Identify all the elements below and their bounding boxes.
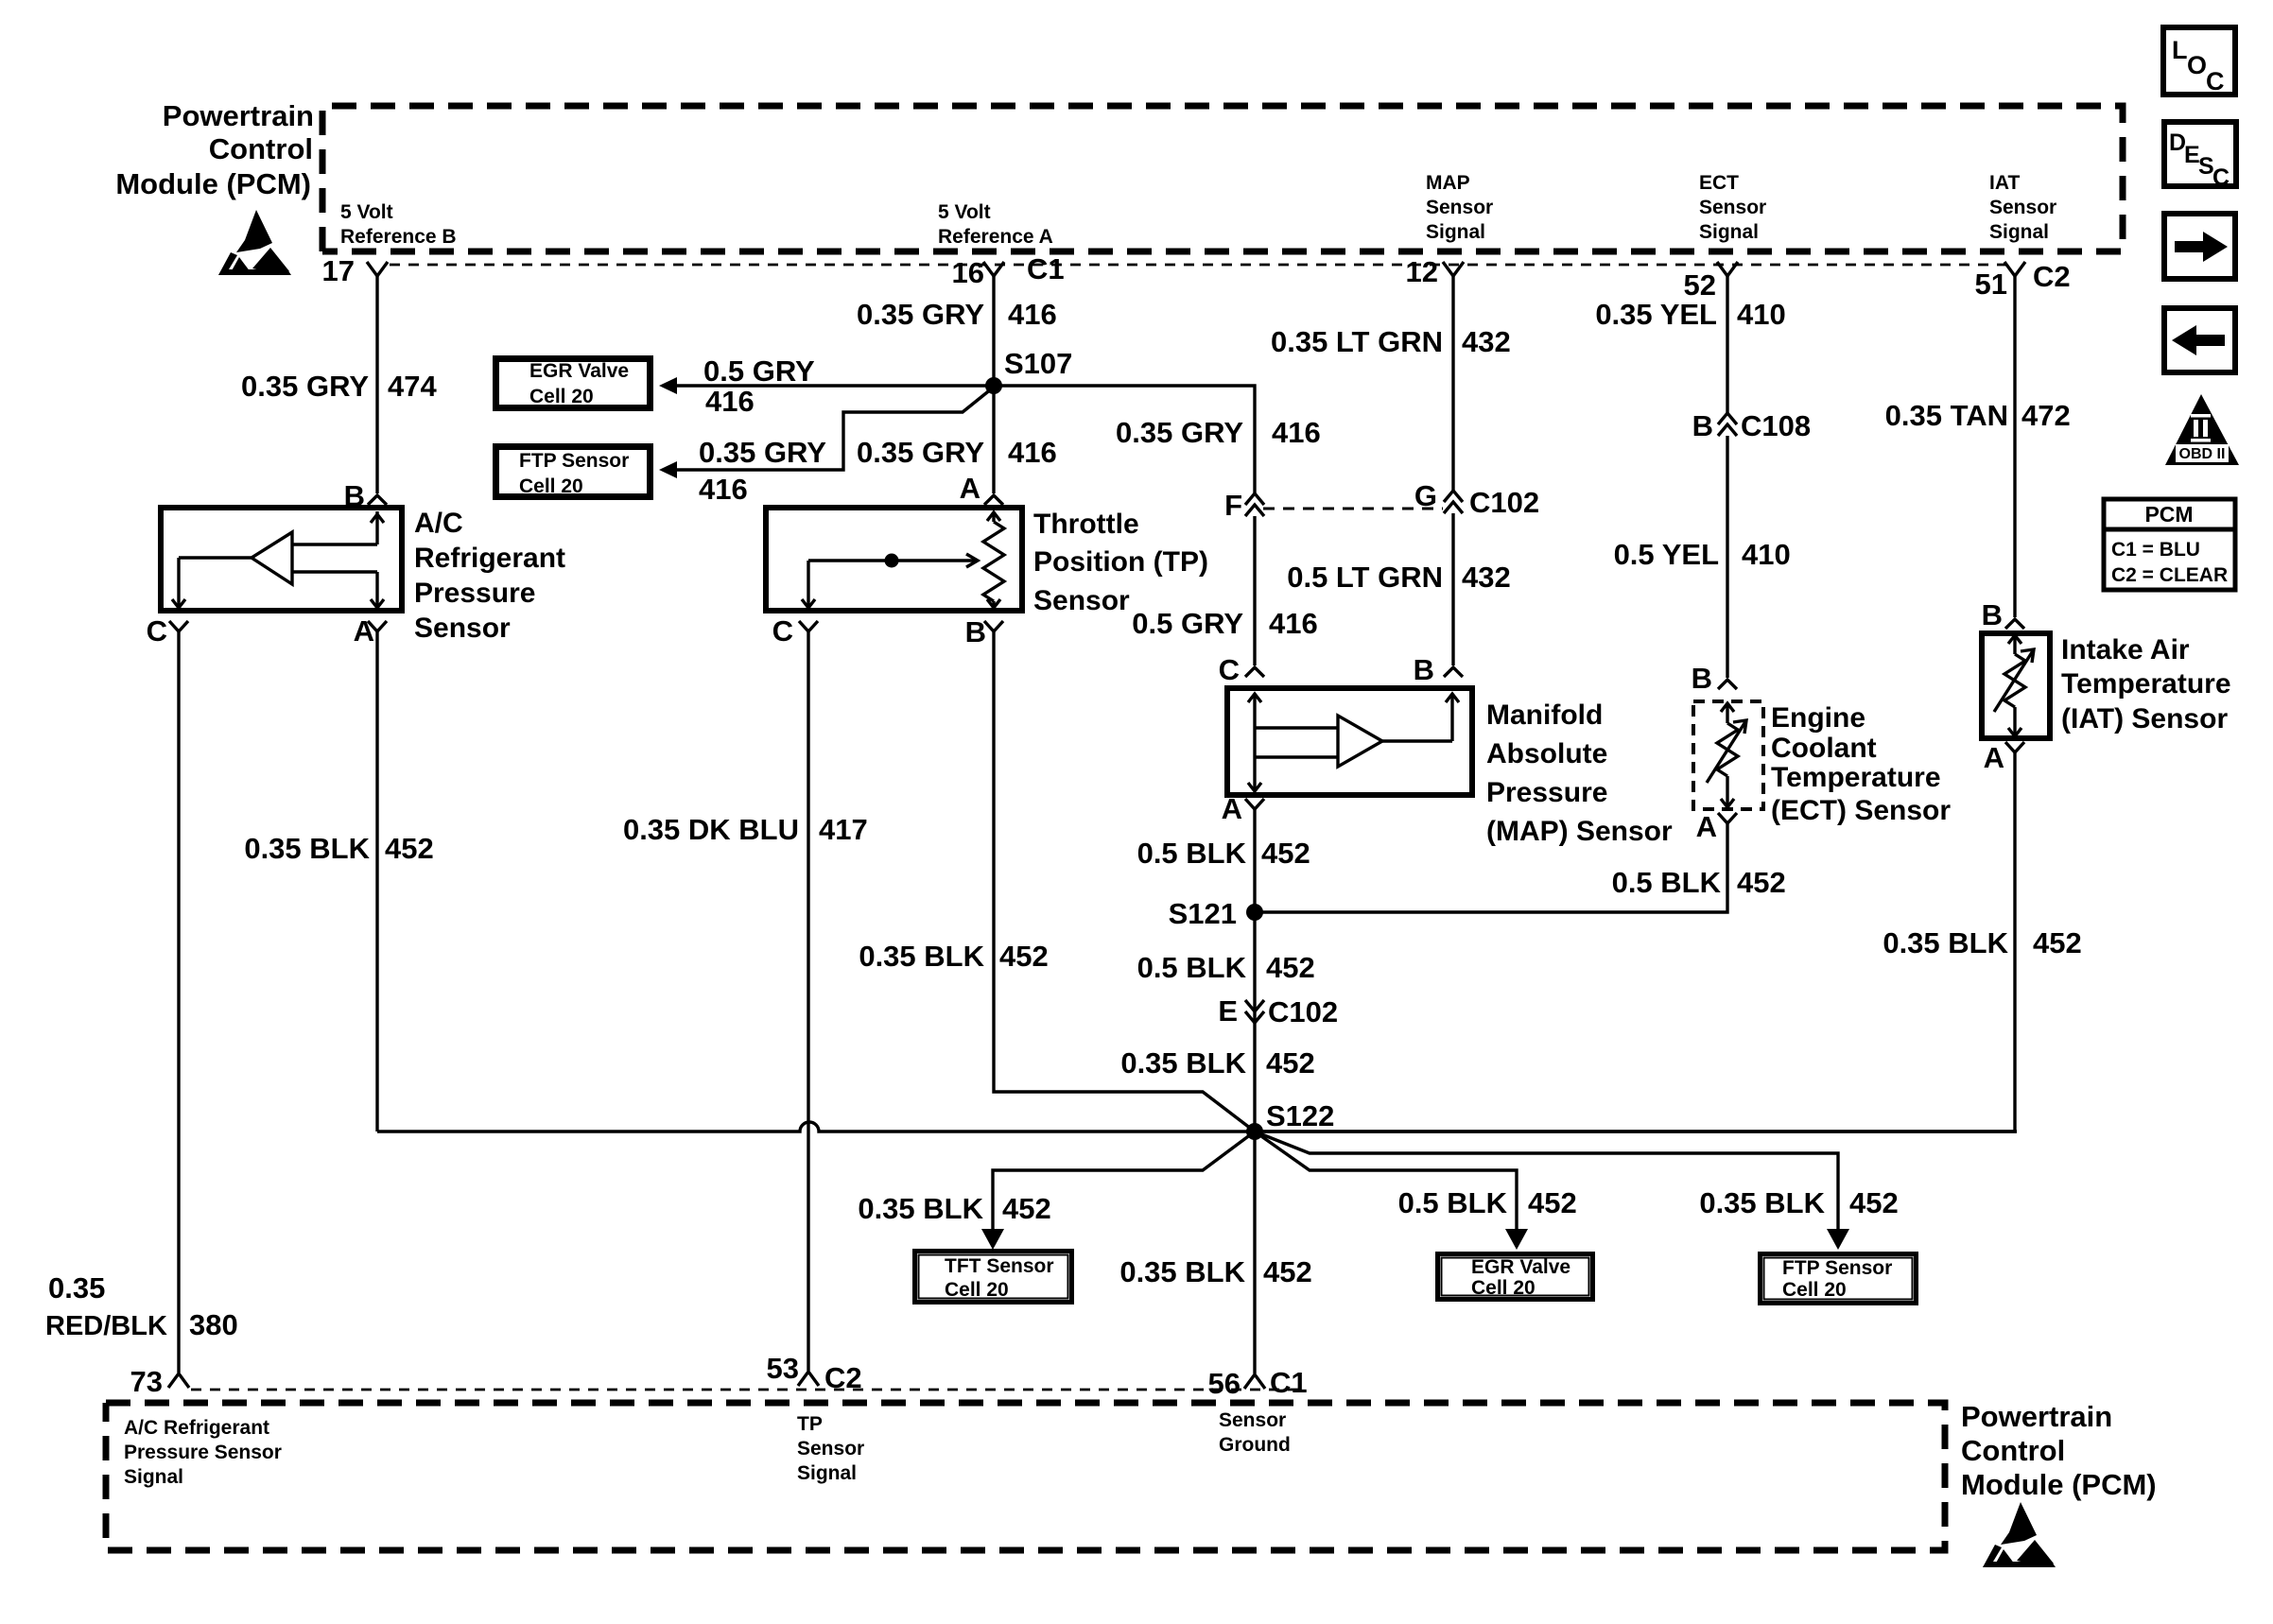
svg-text:Refrigerant: Refrigerant	[414, 543, 565, 574]
svg-text:A: A	[1222, 792, 1242, 825]
connector C102 pin F	[1224, 489, 1264, 522]
svg-text:452: 452	[1737, 866, 1786, 899]
connector C102 pin E	[1218, 994, 1338, 1028]
svg-text:(IAT) Sensor: (IAT) Sensor	[2061, 703, 2228, 734]
svg-text:Powertrain: Powertrain	[1961, 1400, 2112, 1433]
FTP Sensor Cell 20 box (top)	[495, 446, 651, 498]
svg-text:Sensor: Sensor	[797, 1438, 864, 1460]
svg-text:0.5 BLK: 0.5 BLK	[1398, 1186, 1508, 1219]
svg-text:(ECT) Sensor: (ECT) Sensor	[1771, 795, 1951, 826]
label Manifold Absolute Pressure (MAP) Sensor	[1486, 700, 1673, 847]
label A/C Refrigerant Pressure Sensor Signal	[124, 1417, 282, 1488]
wire 380: A/C C to PCM pin 73	[177, 631, 180, 1373]
DESC icon	[2164, 122, 2236, 191]
svg-text:C2 = CLEAR: C2 = CLEAR	[2111, 564, 2228, 586]
svg-text:OBD II: OBD II	[2179, 446, 2226, 462]
wire 432: C102 G to MAP sensor B	[1287, 513, 1511, 665]
label 0.35 BLK 452 (sensor ground)	[1119, 1255, 1311, 1288]
svg-text:C1 = BLU: C1 = BLU	[2111, 539, 2200, 561]
svg-text:52: 52	[1684, 268, 1716, 302]
label Powertrain Control Module (PCM) bottom-right	[1961, 1400, 2157, 1501]
svg-text:416: 416	[705, 385, 755, 418]
svg-text:Signal: Signal	[124, 1466, 183, 1488]
label IAT Sensor Signal	[1989, 172, 2056, 243]
svg-text:5 Volt: 5 Volt	[938, 201, 991, 223]
svg-text:FTP Sensor: FTP Sensor	[1782, 1257, 1892, 1279]
svg-text:C1: C1	[1027, 252, 1065, 285]
wire 452: ECT A down and left to S121	[1255, 823, 1727, 912]
A/C Refrigerant Pressure Sensor box	[161, 508, 402, 611]
label 0.35 DK BLU 417	[623, 813, 868, 846]
svg-text:0.35 GRY: 0.35 GRY	[857, 436, 984, 469]
label 5 Volt Reference A	[938, 201, 1053, 248]
wire 416: S107 to FTP Sensor (arrow)	[659, 389, 992, 506]
svg-text:452: 452	[1528, 1186, 1577, 1219]
svg-text:0.35 BLK: 0.35 BLK	[1119, 1255, 1245, 1288]
svg-text:C102: C102	[1268, 995, 1338, 1028]
splice S121	[1169, 897, 1263, 930]
svg-text:G: G	[1414, 479, 1437, 512]
label 0.5 BLK 452 (ECT A wire)	[1612, 866, 1786, 899]
svg-text:53: 53	[767, 1352, 799, 1385]
svg-text:0.35 BLK: 0.35 BLK	[1120, 1046, 1246, 1080]
MAP terminal B	[1414, 653, 1463, 686]
svg-text:Pressure: Pressure	[1486, 777, 1607, 808]
PCM bottom dashed box	[106, 1403, 1945, 1550]
wire 452: S122 to TFT Sensor	[981, 1132, 1255, 1250]
label Throttle Position (TP) Sensor	[1033, 509, 1208, 616]
IAT terminal A	[1984, 741, 2024, 774]
svg-text:416: 416	[1008, 436, 1057, 469]
svg-text:Module (PCM): Module (PCM)	[1961, 1468, 2157, 1501]
label Sensor Ground	[1219, 1409, 1291, 1456]
pin 16 C1	[952, 252, 1065, 289]
svg-text:A: A	[960, 472, 980, 505]
OBD II icon	[2165, 394, 2239, 465]
svg-text:B: B	[1692, 662, 1712, 695]
svg-text:C102: C102	[1469, 486, 1539, 519]
svg-text:Manifold: Manifold	[1486, 700, 1603, 731]
svg-text:B: B	[1982, 598, 2003, 631]
wire 410: C108 to ECT sensor B	[1614, 436, 1791, 678]
label A/C Refrigerant Pressure Sensor	[414, 508, 565, 644]
svg-text:472: 472	[2021, 399, 2071, 432]
svg-text:EGR Valve: EGR Valve	[1471, 1256, 1570, 1278]
wire 416: F to MAP C	[1132, 516, 1317, 665]
svg-text:0.35 BLK: 0.35 BLK	[858, 1192, 983, 1225]
svg-text:410: 410	[1742, 538, 1791, 571]
svg-text:Pressure: Pressure	[414, 578, 535, 609]
pin 12	[1406, 255, 1464, 288]
pin 53 C2	[767, 1352, 862, 1394]
connector C102 dashed line F to G	[1263, 508, 1443, 510]
ECT sensor internals (thermistor)	[1707, 703, 1746, 807]
svg-text:Absolute: Absolute	[1486, 738, 1607, 769]
svg-text:Position (TP): Position (TP)	[1033, 546, 1208, 578]
TP sensor internals (potentiometer)	[802, 511, 1004, 608]
svg-text:O: O	[2187, 51, 2207, 79]
svg-text:416: 416	[1272, 416, 1321, 449]
svg-text:452: 452	[1266, 951, 1315, 984]
svg-text:B: B	[1692, 409, 1713, 442]
svg-text:0.5 LT GRN: 0.5 LT GRN	[1287, 561, 1443, 594]
wire 452: IAT A down and left to S122	[1255, 752, 2015, 1132]
svg-text:51: 51	[1975, 268, 2007, 301]
MAP terminal A	[1222, 792, 1264, 825]
wire 452: S122 to FTP Sensor (bottom)	[1255, 1132, 1849, 1250]
svg-text:Cell 20: Cell 20	[1471, 1277, 1536, 1299]
label Intake Air Temperature (IAT) Sensor	[2061, 634, 2231, 734]
svg-text:Ground: Ground	[1219, 1434, 1291, 1456]
label 0.35 BLK 452 (A/C A wire)	[244, 832, 433, 865]
label 5 Volt Reference B	[340, 201, 457, 248]
svg-text:Reference A: Reference A	[938, 226, 1053, 248]
svg-text:C: C	[147, 614, 167, 648]
svg-text:TFT Sensor: TFT Sensor	[945, 1255, 1054, 1277]
label 0.35 BLK 452 (TP B wire)	[859, 940, 1048, 973]
svg-text:73: 73	[130, 1365, 163, 1398]
svg-text:Cell 20: Cell 20	[945, 1279, 1009, 1301]
wire 416: PCM pin 16 through S107 to TP sensor A	[992, 276, 995, 493]
svg-text:Sensor: Sensor	[1699, 197, 1766, 218]
svg-text:E: E	[1218, 994, 1238, 1028]
EGR Valve Cell 20 box (bottom)	[1438, 1254, 1593, 1300]
svg-text:Cell 20: Cell 20	[519, 475, 583, 497]
svg-text:432: 432	[1462, 561, 1511, 594]
svg-text:12: 12	[1406, 255, 1438, 288]
svg-text:452: 452	[1266, 1046, 1315, 1080]
previous page arrow icon	[2164, 308, 2235, 372]
label 0.5 BLK 452 (below S121)	[1137, 951, 1315, 984]
svg-text:A: A	[1696, 810, 1717, 843]
wire 416: S107 to MAP sensor F	[994, 386, 1255, 493]
svg-text:C2: C2	[2033, 260, 2071, 293]
svg-text:Pressure Sensor: Pressure Sensor	[124, 1442, 282, 1463]
svg-text:Signal: Signal	[1989, 221, 2049, 243]
svg-text:Engine: Engine	[1771, 702, 1865, 734]
label 0.35 RED/BLK 380	[45, 1271, 238, 1341]
pin 73	[130, 1365, 189, 1398]
svg-text:A: A	[1984, 741, 2004, 774]
svg-text:C1: C1	[1270, 1366, 1308, 1399]
IAT sensor internals (thermistor)	[1994, 635, 2034, 736]
svg-text:L: L	[2172, 36, 2188, 64]
svg-text:Reference B: Reference B	[340, 226, 457, 248]
svg-text:F: F	[1224, 489, 1242, 522]
svg-text:0.35 GRY: 0.35 GRY	[699, 436, 826, 469]
svg-text:0.35 YEL: 0.35 YEL	[1595, 298, 1717, 331]
svg-text:TP: TP	[797, 1413, 823, 1435]
splice S107	[985, 347, 1072, 394]
svg-text:416: 416	[699, 473, 748, 506]
svg-text:452: 452	[2033, 926, 2082, 959]
svg-text:S107: S107	[1004, 347, 1072, 380]
MAP sensor box	[1227, 688, 1472, 795]
label 0.35 GRY 416 (below S107)	[857, 436, 1057, 469]
svg-text:452: 452	[999, 940, 1049, 973]
label 0.35 BLK 452 (E to S122)	[1120, 1046, 1314, 1080]
IAT terminal B	[1982, 598, 2024, 631]
svg-text:RED/BLK: RED/BLK	[45, 1311, 167, 1341]
svg-text:C: C	[2212, 164, 2230, 191]
svg-text:417: 417	[819, 813, 868, 846]
svg-text:0.5 BLK: 0.5 BLK	[1612, 866, 1722, 899]
pin 51 C2	[1975, 260, 2071, 301]
label ECT Sensor Signal	[1699, 172, 1766, 243]
svg-text:Sensor: Sensor	[1033, 585, 1130, 616]
svg-text:0.35 LT GRN: 0.35 LT GRN	[1271, 325, 1443, 358]
svg-text:0.5 BLK: 0.5 BLK	[1137, 951, 1247, 984]
svg-text:0.5 BLK: 0.5 BLK	[1137, 837, 1247, 870]
svg-text:0.35 GRY: 0.35 GRY	[857, 298, 984, 331]
wire 452: TP B down to S122	[994, 631, 1255, 1132]
wire 417: TP C to PCM pin 53	[807, 631, 809, 1371]
svg-text:A: A	[354, 614, 374, 648]
A/C terminal B	[344, 479, 387, 512]
svg-text:(MAP) Sensor: (MAP) Sensor	[1486, 816, 1673, 847]
label 0.35 BLK 452 (TFT wire)	[858, 1192, 1050, 1225]
svg-text:C: C	[1219, 653, 1240, 686]
label 0.35 GRY 416 (pin 16)	[857, 298, 1057, 331]
label 0.5 BLK 452 (MAP A wire)	[1137, 837, 1310, 870]
svg-text:C108: C108	[1741, 409, 1811, 442]
svg-text:Control: Control	[209, 132, 313, 165]
PCM top dashed box	[322, 106, 2123, 251]
svg-text:452: 452	[1261, 837, 1310, 870]
svg-text:Cell 20: Cell 20	[529, 386, 594, 407]
svg-text:Temperature: Temperature	[1771, 762, 1941, 793]
svg-text:432: 432	[1462, 325, 1511, 358]
pin 56 C1	[1208, 1366, 1308, 1400]
svg-text:IAT: IAT	[1989, 172, 2020, 194]
svg-text:Control: Control	[1961, 1434, 2065, 1467]
connector face C1/C2 thin dashed line (top)	[390, 264, 2006, 267]
svg-text:Powertrain: Powertrain	[163, 99, 314, 132]
label MAP Sensor Signal	[1426, 172, 1493, 243]
wire 416: S107 to EGR Valve (arrow)	[659, 354, 994, 418]
svg-text:0.5 YEL: 0.5 YEL	[1614, 538, 1719, 571]
svg-text:0.35 TAN: 0.35 TAN	[1885, 399, 2008, 432]
svg-text:B: B	[965, 615, 986, 648]
label 0.35 BLK 452 (IAT A wire)	[1883, 926, 2081, 959]
svg-text:16: 16	[952, 256, 984, 289]
svg-text:FTP Sensor: FTP Sensor	[519, 450, 629, 472]
TP terminal A	[960, 472, 1003, 505]
svg-text:MAP: MAP	[1426, 172, 1470, 194]
svg-text:416: 416	[1269, 607, 1318, 640]
connector C108 pin B	[1692, 409, 1812, 442]
label 0.35 GRY 474	[241, 370, 437, 403]
svg-text:0.35 DK BLU: 0.35 DK BLU	[623, 813, 799, 846]
pin 52	[1684, 262, 1738, 302]
svg-text:452: 452	[385, 832, 434, 865]
ESD static symbol top	[218, 210, 291, 275]
svg-text:0.35 BLK: 0.35 BLK	[1883, 926, 2008, 959]
TP terminal C	[772, 614, 818, 648]
label 0.35 BLK 452 (FTP wire)	[1699, 1186, 1898, 1219]
A/C sensor internals (transducer symbol)	[172, 511, 384, 608]
next page arrow icon	[2164, 214, 2235, 279]
ECT terminal A	[1696, 810, 1737, 843]
svg-text:56: 56	[1208, 1367, 1241, 1400]
svg-text:S122: S122	[1266, 1099, 1334, 1132]
MAP sensor internals (amplifier symbol)	[1248, 694, 1459, 791]
A/C terminal A	[354, 614, 387, 648]
PCM connector legend box	[2104, 499, 2235, 590]
svg-text:0.35 BLK: 0.35 BLK	[244, 832, 370, 865]
Throttle Position sensor box	[766, 508, 1022, 611]
svg-text:17: 17	[322, 254, 355, 287]
splice S122	[1246, 1099, 1334, 1140]
svg-text:C: C	[2206, 67, 2225, 95]
svg-text:Sensor: Sensor	[1219, 1409, 1286, 1431]
svg-text:Intake Air: Intake Air	[2061, 634, 2190, 665]
svg-text:Sensor: Sensor	[1426, 197, 1493, 218]
svg-text:452: 452	[1002, 1192, 1051, 1225]
label 0.35 GRY 416 (F wire)	[1116, 416, 1321, 449]
svg-text:Cell 20: Cell 20	[1782, 1279, 1847, 1301]
wire 410: PCM pin 52 to C108	[1595, 276, 1785, 413]
wire 432: PCM pin 12 to C102 G	[1271, 276, 1511, 491]
connector face thin dashed line (bottom)	[191, 1389, 1307, 1391]
svg-text:ECT: ECT	[1699, 172, 1739, 194]
A/C terminal C	[147, 614, 188, 648]
label 0.5 BLK 452 (EGR wire)	[1398, 1186, 1577, 1219]
MAP terminal C	[1219, 653, 1264, 686]
wire 452: A/C A down and right to S122 (with hop)	[377, 631, 2017, 1132]
svg-text:0.35 GRY: 0.35 GRY	[241, 370, 369, 403]
svg-text:Signal: Signal	[797, 1462, 857, 1484]
wire 472: PCM pin 51 to IAT sensor B	[1885, 276, 2071, 617]
svg-text:452: 452	[1849, 1186, 1899, 1219]
connector C102 pin G	[1414, 479, 1539, 519]
svg-text:A/C: A/C	[414, 508, 463, 539]
svg-text:0.35 GRY: 0.35 GRY	[1116, 416, 1243, 449]
svg-text:5 Volt: 5 Volt	[340, 201, 393, 223]
wire 452: S122 to EGR Valve (bottom)	[1255, 1132, 1528, 1250]
svg-text:B: B	[344, 479, 365, 512]
svg-text:EGR Valve: EGR Valve	[529, 360, 629, 382]
svg-text:A/C Refrigerant: A/C Refrigerant	[124, 1417, 269, 1439]
pin 17	[322, 254, 388, 287]
svg-text:Sensor: Sensor	[1989, 197, 2056, 218]
svg-text:0.5 GRY: 0.5 GRY	[1132, 607, 1243, 640]
svg-text:Temperature: Temperature	[2061, 668, 2231, 700]
wire 452: S122 down to PCM pin 56	[1253, 1132, 1256, 1373]
svg-text:PCM: PCM	[2144, 502, 2193, 527]
svg-text:Throttle: Throttle	[1033, 509, 1139, 540]
svg-text:410: 410	[1737, 298, 1786, 331]
svg-text:416: 416	[1008, 298, 1057, 331]
FTP Sensor Cell 20 box (bottom)	[1761, 1254, 1917, 1304]
ECT sensor dashed box	[1693, 701, 1763, 809]
svg-text:0.35 BLK: 0.35 BLK	[859, 940, 984, 973]
svg-text:Signal: Signal	[1426, 221, 1485, 243]
svg-text:S121: S121	[1169, 897, 1237, 930]
EGR Valve Cell 20 box (top)	[495, 358, 651, 409]
svg-text:Signal: Signal	[1699, 221, 1759, 243]
svg-text:Module (PCM): Module (PCM)	[115, 167, 311, 200]
svg-text:0.5 GRY: 0.5 GRY	[703, 354, 815, 388]
svg-text:C: C	[772, 614, 793, 648]
IAT sensor box	[1982, 633, 2050, 738]
ESD static symbol bottom	[1983, 1502, 2056, 1567]
label Engine Coolant Temperature (ECT) Sensor	[1771, 702, 1951, 826]
TFT Sensor Cell 20 box	[915, 1252, 1072, 1303]
svg-text:0.35: 0.35	[48, 1271, 105, 1304]
label Powertrain Control Module (PCM) top-left	[115, 99, 314, 200]
svg-text:380: 380	[189, 1308, 238, 1341]
label TP Sensor Signal	[797, 1413, 864, 1484]
LOC icon	[2163, 27, 2235, 95]
svg-text:Coolant: Coolant	[1771, 733, 1877, 764]
svg-text:474: 474	[388, 370, 437, 403]
ECT terminal B	[1692, 662, 1737, 695]
svg-text:Sensor: Sensor	[414, 613, 511, 644]
wire 474: PCM pin 17 to A/C sensor B	[375, 276, 378, 493]
svg-text:452: 452	[1263, 1255, 1312, 1288]
TP terminal B	[965, 615, 1003, 648]
wire 452: MAP A down through S121, C102 E to S122	[1253, 809, 1256, 1132]
svg-text:0.35 BLK: 0.35 BLK	[1699, 1186, 1825, 1219]
svg-text:B: B	[1414, 653, 1434, 686]
